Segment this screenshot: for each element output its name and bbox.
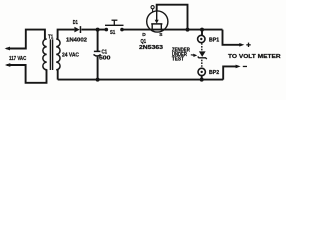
label S (source) xyxy=(159,32,163,38)
svg-text:T1: T1 xyxy=(48,35,53,41)
label 117 VAC xyxy=(9,56,26,62)
junction dot at BP1 tap xyxy=(200,28,204,32)
label 1N4002 xyxy=(66,37,87,43)
pointer arrow from UNDER label to zener xyxy=(191,54,197,57)
T1 primary winding xyxy=(43,39,47,70)
voltmeter minus arrowhead xyxy=(236,65,241,69)
svg-text:TEST: TEST xyxy=(172,57,184,63)
Q1 case lead circle xyxy=(152,9,154,12)
wire BP1 branch xyxy=(201,30,203,36)
minus sign xyxy=(243,66,247,67)
T1 core xyxy=(49,39,51,70)
binding post BP1 xyxy=(198,35,205,42)
svg-text:2N5363: 2N5363 xyxy=(139,45,163,51)
svg-text:BP2: BP2 xyxy=(209,70,219,76)
wire top input lead (hot) xyxy=(7,30,45,49)
svg-text:BP1: BP1 xyxy=(209,38,219,44)
label S1 xyxy=(110,30,115,36)
label ZENDER UNDER TEST xyxy=(172,48,190,63)
svg-text:117 VAC: 117 VAC xyxy=(9,56,26,62)
label 2N5363 xyxy=(139,45,163,51)
junction dot at BP2 bottom xyxy=(200,78,204,82)
zener under test (dashed leads + zener symbol) xyxy=(198,43,207,67)
input arrowhead bottom xyxy=(5,63,10,67)
junction dot at gate loop xyxy=(186,28,190,32)
input arrowhead top xyxy=(5,47,10,51)
junction dot at C1 top tap xyxy=(96,28,100,32)
wire top rail: diode to switch S1 xyxy=(81,29,105,31)
label 500 xyxy=(99,56,110,62)
svg-text:TO VOLT METER: TO VOLT METER xyxy=(228,54,282,60)
binding post BP2 xyxy=(198,68,205,75)
svg-text:500: 500 xyxy=(99,56,110,62)
plus sign xyxy=(246,43,250,47)
transistor Q1 (FET in circle) xyxy=(147,6,168,32)
wire voltmeter minus lead xyxy=(223,66,238,79)
wire BP2 lead to bottom rail xyxy=(201,75,203,79)
T1 secondary winding xyxy=(56,39,60,70)
junction dot at C1 bottom xyxy=(96,78,100,82)
Q1 gate lead with arrow xyxy=(156,11,158,21)
label BP1 xyxy=(209,38,219,44)
wire C1 lower lead to bottom rail xyxy=(97,57,99,80)
capacitor C1 xyxy=(94,51,101,56)
label BP2 xyxy=(209,70,219,76)
wire top rail: switch S1 to Q1 drain and source, on to plus tap xyxy=(123,29,223,31)
label C1 xyxy=(102,50,108,56)
svg-text:D: D xyxy=(142,32,146,38)
label 24 VAC xyxy=(62,53,79,59)
label D1 xyxy=(73,20,78,26)
svg-text:1N4002: 1N4002 xyxy=(66,37,87,43)
svg-text:D1: D1 xyxy=(73,20,78,26)
wire voltmeter plus lead xyxy=(223,30,242,45)
svg-text:24 VAC: 24 VAC xyxy=(62,53,79,59)
wire bottom input lead (neutral) xyxy=(7,65,47,83)
label Q1 xyxy=(141,39,147,45)
label T1 xyxy=(48,35,53,41)
Q1 drain leg xyxy=(151,24,153,30)
diode D1 xyxy=(74,26,81,33)
Q1 source leg xyxy=(160,24,162,30)
svg-text:S1: S1 xyxy=(110,30,115,36)
wire top rail: secondary to diode xyxy=(58,30,75,40)
label TO VOLT METER xyxy=(228,54,282,60)
wire secondary bottom stub xyxy=(57,69,59,79)
label D (drain) xyxy=(142,32,146,38)
svg-text:S: S xyxy=(159,32,163,38)
voltmeter plus arrowhead xyxy=(239,43,244,47)
transformer T1 xyxy=(43,39,60,70)
Q1 channel bar xyxy=(151,23,162,25)
wire bottom rail xyxy=(58,79,224,81)
switch S1 (pushbutton) xyxy=(105,20,124,31)
wire gate loop from Q1 top to rail xyxy=(157,5,188,30)
wire C1 branch down from top rail xyxy=(97,30,99,52)
